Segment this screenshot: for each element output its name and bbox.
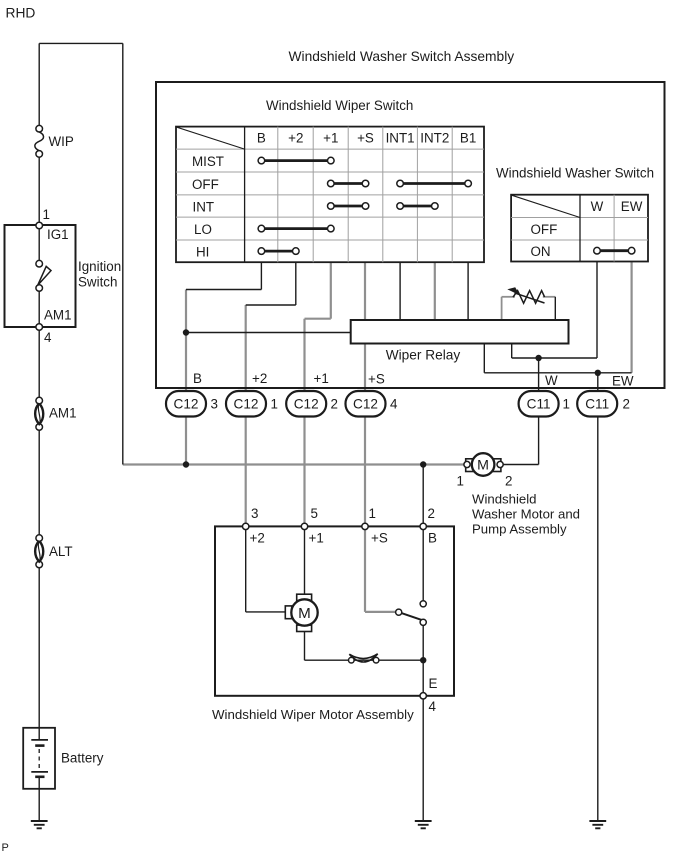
svg-text:Wiper Relay: Wiper Relay <box>386 348 461 363</box>
svg-text:Battery: Battery <box>61 751 104 766</box>
svg-text:EW: EW <box>621 199 643 214</box>
svg-text:AM1: AM1 <box>44 308 72 323</box>
svg-text:OFF: OFF <box>531 222 558 237</box>
svg-text:B: B <box>257 130 266 145</box>
svg-text:2: 2 <box>331 397 338 412</box>
svg-text:Pump Assembly: Pump Assembly <box>472 522 567 537</box>
svg-text:+1: +1 <box>323 130 338 145</box>
svg-text:RHD: RHD <box>6 6 36 21</box>
svg-text:3: 3 <box>251 506 258 521</box>
svg-text:LO: LO <box>194 222 212 237</box>
svg-text:OFF: OFF <box>192 177 219 192</box>
svg-text:C11: C11 <box>527 397 551 412</box>
svg-text:Windshield Wiper Motor Assembl: Windshield Wiper Motor Assembly <box>212 707 414 722</box>
svg-text:INT2: INT2 <box>420 130 449 145</box>
svg-text:Windshield Washer Switch: Windshield Washer Switch <box>496 166 654 181</box>
svg-text:1: 1 <box>43 207 50 222</box>
svg-text:+2: +2 <box>288 130 303 145</box>
svg-text:ALT: ALT <box>49 544 73 559</box>
svg-text:Washer Motor and: Washer Motor and <box>472 506 580 521</box>
svg-text:B: B <box>193 371 202 386</box>
svg-text:Windshield: Windshield <box>472 491 537 506</box>
svg-text:1: 1 <box>563 397 570 412</box>
svg-text:C11: C11 <box>585 397 609 412</box>
svg-text:IG1: IG1 <box>47 227 69 242</box>
svg-text:4: 4 <box>390 397 398 412</box>
svg-text:2: 2 <box>623 397 630 412</box>
svg-text:+S: +S <box>368 372 385 387</box>
svg-text:Ignition: Ignition <box>78 259 121 274</box>
svg-text:+1: +1 <box>309 531 324 546</box>
svg-text:C12: C12 <box>353 397 378 412</box>
svg-text:1: 1 <box>369 506 376 521</box>
svg-text:2: 2 <box>428 506 435 521</box>
svg-text:4: 4 <box>44 330 52 345</box>
svg-text:AM1: AM1 <box>49 406 77 421</box>
svg-text:Switch: Switch <box>78 275 117 290</box>
svg-text:3: 3 <box>211 397 218 412</box>
svg-text:MIST: MIST <box>192 154 224 169</box>
svg-text:+2: +2 <box>250 531 265 546</box>
svg-text:1: 1 <box>457 474 464 489</box>
svg-text:+2: +2 <box>252 371 267 386</box>
svg-text:4: 4 <box>429 699 437 714</box>
svg-text:ON: ON <box>531 244 551 259</box>
svg-text:INT1: INT1 <box>386 130 415 145</box>
svg-text:C12: C12 <box>294 397 319 412</box>
svg-text:W: W <box>545 373 558 388</box>
svg-text:Windshield Wiper Switch: Windshield Wiper Switch <box>266 98 413 113</box>
svg-text:5: 5 <box>311 506 318 521</box>
svg-text:C12: C12 <box>174 397 199 412</box>
svg-text:HI: HI <box>196 244 209 259</box>
svg-text:E: E <box>429 676 438 691</box>
svg-text:P: P <box>2 842 9 854</box>
svg-text:+S: +S <box>371 531 388 546</box>
svg-text:+S: +S <box>357 130 374 145</box>
svg-text:M: M <box>298 605 311 622</box>
svg-text:EW: EW <box>612 374 634 389</box>
svg-text:M: M <box>477 458 489 474</box>
svg-text:WIP: WIP <box>49 134 74 149</box>
svg-text:Windshield Washer Switch Assem: Windshield Washer Switch Assembly <box>289 49 515 64</box>
svg-text:+1: +1 <box>314 371 329 386</box>
svg-text:C12: C12 <box>234 397 259 412</box>
svg-text:1: 1 <box>271 397 278 412</box>
svg-text:B: B <box>428 531 437 546</box>
svg-text:2: 2 <box>505 474 512 489</box>
svg-text:W: W <box>591 199 604 214</box>
svg-text:INT: INT <box>193 199 215 214</box>
svg-text:B1: B1 <box>460 130 476 145</box>
